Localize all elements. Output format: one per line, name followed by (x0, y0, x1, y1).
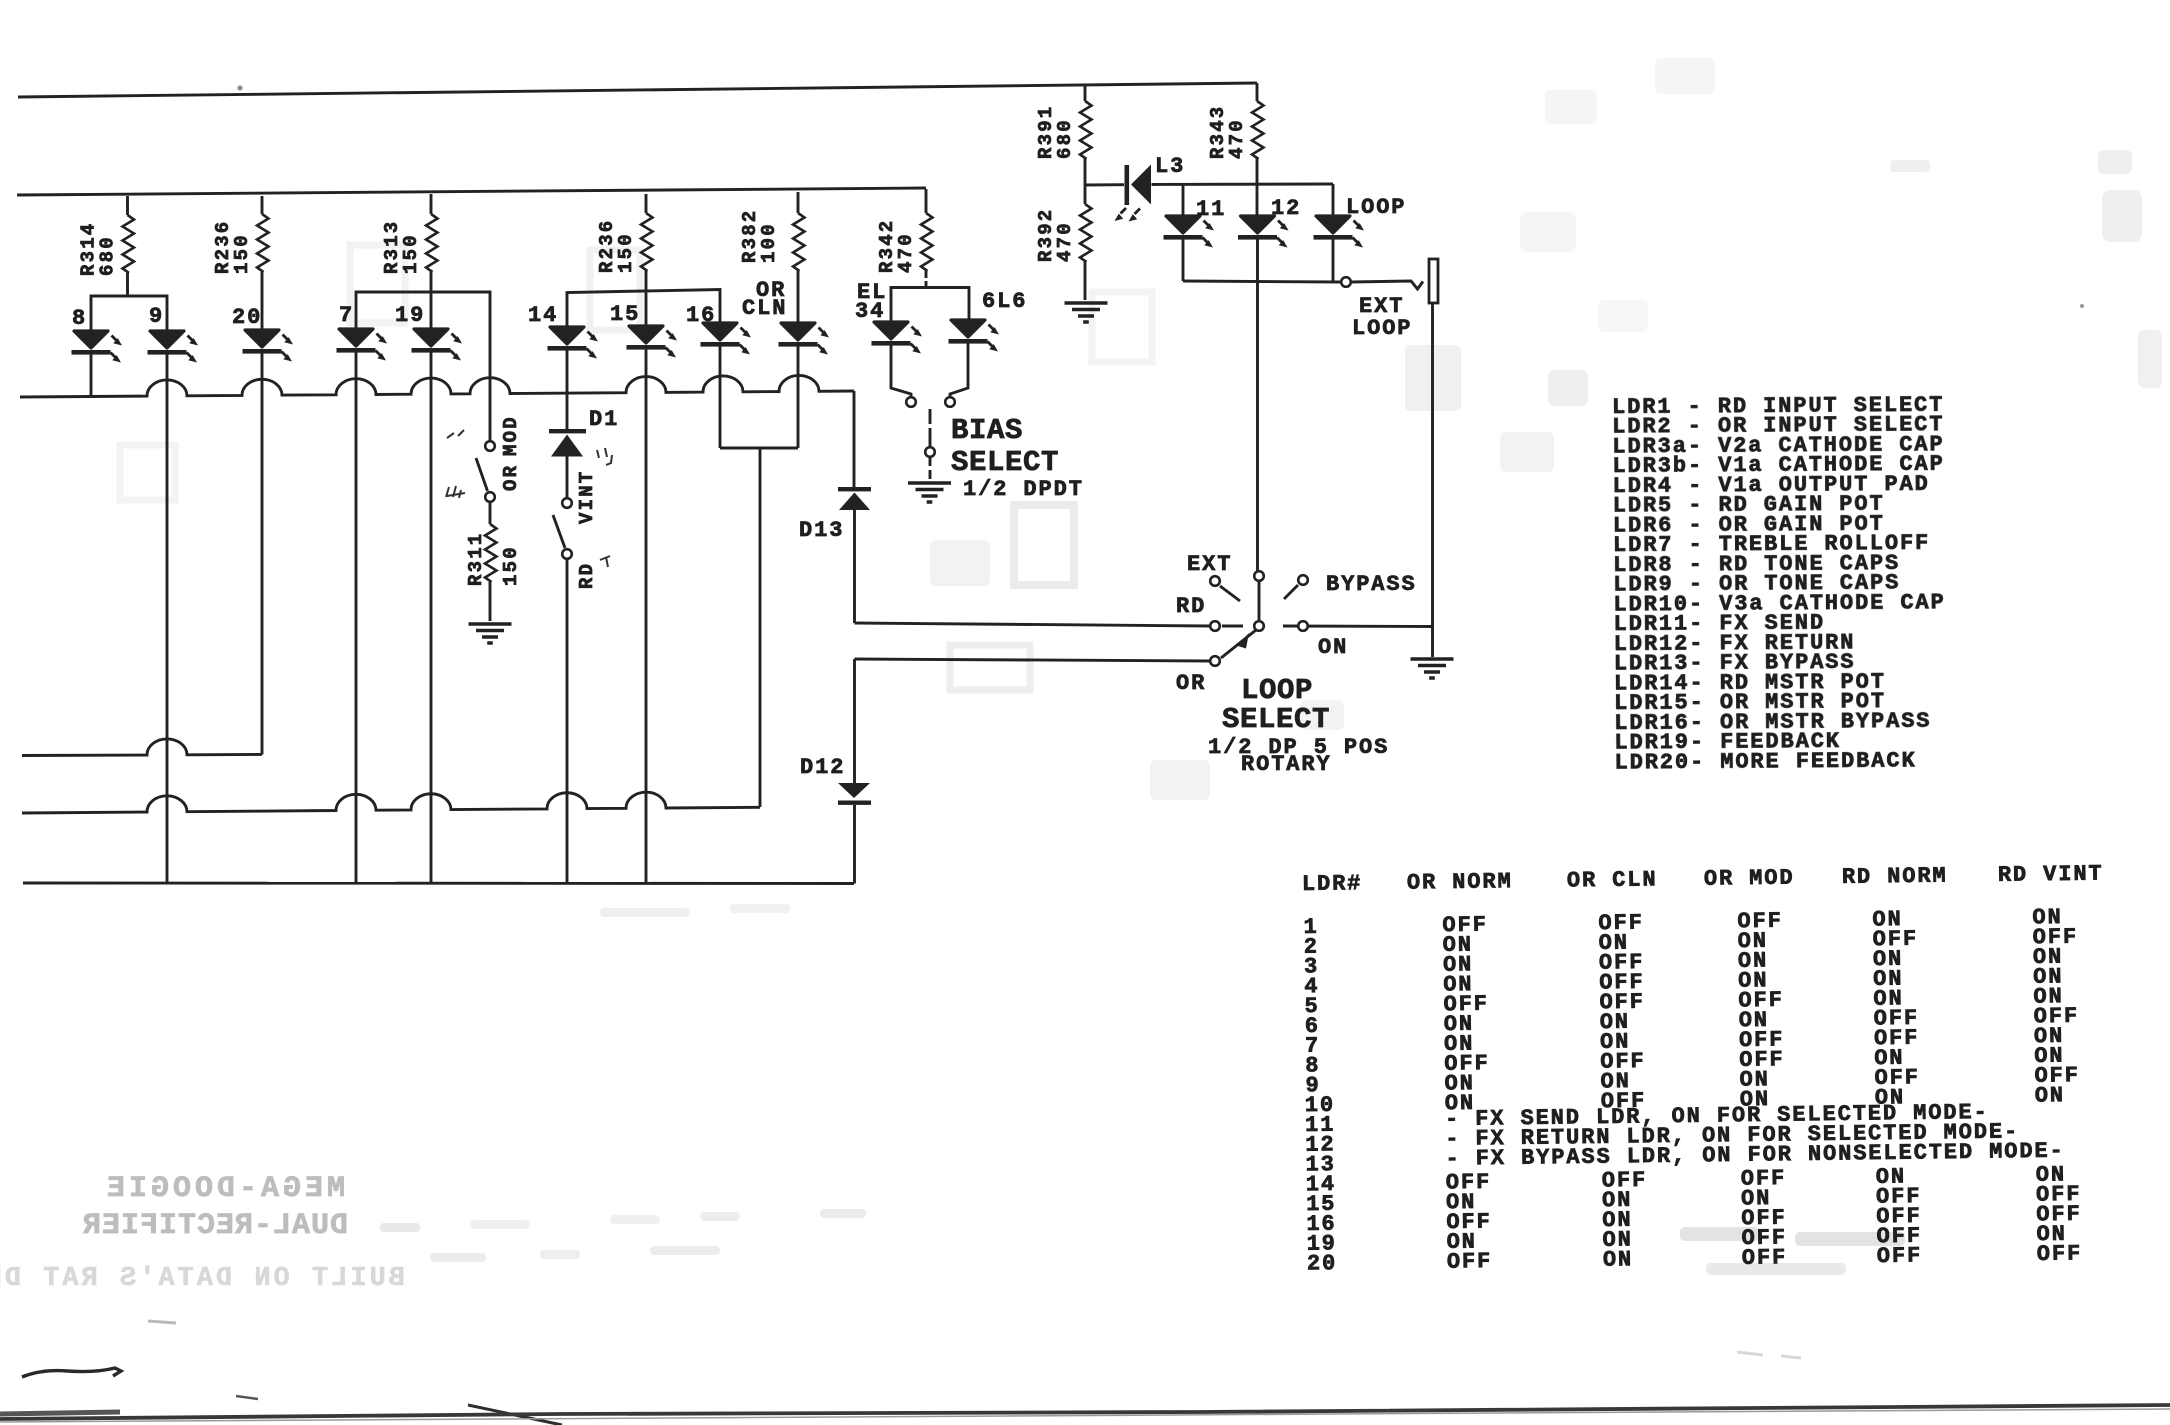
svg-text:ON: ON (1318, 635, 1348, 660)
resistor R314 (126, 196, 129, 296)
switch BIAS SELECT contacts (906, 397, 916, 407)
LED LOOP (1332, 184, 1335, 215)
switch LOOP SELECT rotary (1254, 571, 1264, 581)
LED OR CLN (779, 323, 830, 355)
svg-text:ROTARY: ROTARY (1241, 752, 1332, 777)
wire bracket LED14/15/16 (567, 290, 720, 327)
wire L3 bus (to LEDs 11,12,LOOP) (1085, 184, 1333, 185)
diode D12 (853, 659, 856, 783)
resistor R343 (1256, 83, 1259, 215)
ground (below R392) (1065, 303, 1108, 322)
svg-text:CLN: CLN (742, 296, 787, 321)
diode D13 (853, 391, 856, 487)
svg-text:12: 12 (1271, 196, 1301, 221)
wire bus2 (second horizontal bus) (17, 188, 926, 195)
svg-text:20: 20 (1307, 1251, 1338, 1276)
svg-text:34: 34 (855, 299, 885, 324)
svg-text:LOOP: LOOP (1346, 195, 1406, 220)
svg-text:R311: R311 (465, 532, 487, 586)
svg-text:OR: OR (500, 464, 522, 491)
diode D1 (549, 429, 586, 433)
wire D12 to OR contact (855, 659, 1211, 661)
resistor R342 (925, 189, 928, 288)
svg-text:SELECT: SELECT (951, 446, 1059, 479)
svg-text:VINT: VINT (576, 470, 598, 524)
svg-text:LDR20- MORE FEEDBACK: LDR20- MORE FEEDBACK (1614, 748, 1916, 775)
svg-text:6L6: 6L6 (982, 289, 1027, 314)
svg-text:20: 20 (232, 305, 262, 330)
svg-text:9: 9 (149, 304, 164, 329)
label R314 680 (78, 222, 119, 276)
LED 15 (627, 326, 678, 358)
wire from 16/CLN bracket to left edge (22, 792, 760, 813)
svg-text:DUAL-RECTIFIER: DUAL-RECTIFIER (82, 1209, 348, 1243)
jack EXT LOOP (1429, 259, 1438, 303)
label R382 100 (739, 209, 780, 263)
resistor R382 (797, 192, 800, 322)
LED L3 (1125, 165, 1130, 205)
pen mark near MOD switch (447, 430, 464, 438)
LED 11 (1182, 185, 1185, 215)
svg-text:BIAS: BIAS (951, 414, 1023, 447)
label R313 150 (381, 220, 422, 274)
svg-text:150: 150 (400, 233, 422, 274)
switch RD VINT (562, 498, 572, 508)
svg-text:D13: D13 (799, 518, 844, 543)
svg-text:150: 150 (231, 233, 253, 274)
svg-text:150: 150 (615, 232, 637, 273)
svg-text:L3: L3 (1155, 154, 1185, 179)
svg-text:OFF: OFF (1742, 1245, 1788, 1271)
wire bracket LED16/CLN bottom (720, 448, 798, 807)
pen stroke crossing bottom edge (468, 1405, 562, 1425)
svg-text:D12: D12 (800, 755, 845, 780)
svg-text:SELECT: SELECT (1222, 703, 1330, 736)
pen scribble bottom left (22, 1368, 121, 1377)
LED 6L6 (949, 320, 1000, 352)
svg-text:OR: OR (1176, 671, 1206, 696)
wire bracket LED7/LED19 (356, 292, 490, 441)
resistor R311 (489, 502, 492, 621)
resistor R236 (second) (645, 194, 648, 291)
svg-text:MEGA-DOOGIE: MEGA-DOOGIE (103, 1172, 345, 1206)
scan bottom edge (0, 1405, 2170, 1419)
label R311 150 (465, 532, 522, 586)
svg-text:470: 470 (895, 232, 917, 273)
svg-text:EXT: EXT (1187, 552, 1232, 577)
svg-text:OR CLN: OR CLN (1567, 867, 1658, 893)
wire bracket EL34/6L6 (891, 288, 969, 322)
LED 20 (243, 330, 294, 362)
wire bracket LED8/LED9 (91, 296, 167, 330)
svg-text:OFF: OFF (2037, 1241, 2083, 1267)
svg-text:470: 470 (1226, 118, 1248, 159)
svg-text:RD: RD (576, 562, 598, 589)
label R236 150 (first) (212, 220, 253, 274)
LED 9 (148, 331, 199, 363)
label R392 470 (1035, 208, 1076, 262)
svg-text:LOOP: LOOP (1352, 316, 1412, 341)
svg-text:OFF: OFF (1877, 1243, 1923, 1269)
ground (BIAS SELECT) (908, 483, 951, 502)
resistor R236 (first) (261, 196, 264, 329)
svg-text:OFF: OFF (1447, 1249, 1493, 1275)
svg-text:1/2 DPDT: 1/2 DPDT (963, 477, 1084, 502)
svg-text:19: 19 (395, 303, 425, 328)
LED 12 (1238, 216, 1289, 248)
svg-text:16: 16 (686, 303, 716, 328)
wire hump bus (cathode bus with crossover humps) (20, 375, 854, 397)
svg-text:680: 680 (1054, 118, 1076, 159)
LED 7 (337, 329, 388, 361)
svg-text:RD NORM: RD NORM (1842, 864, 1948, 890)
LED 14 (548, 327, 599, 359)
svg-text:100: 100 (758, 222, 780, 263)
resistor R313 (430, 194, 433, 292)
LED 19 (412, 329, 463, 361)
LED 8 (72, 331, 123, 363)
svg-text:BYPASS: BYPASS (1326, 572, 1417, 597)
ground (below R311) (469, 624, 512, 643)
svg-text:D1: D1 (589, 407, 619, 432)
svg-text:RD VINT: RD VINT (1998, 861, 2104, 887)
label R342 470 (876, 219, 917, 273)
faint dash left-bottom (148, 1321, 176, 1323)
svg-text:ON: ON (2035, 1083, 2066, 1108)
svg-text:14: 14 (528, 303, 558, 328)
resistor R391 (1084, 85, 1087, 185)
wire from LDR20 to left edge (22, 739, 262, 756)
wire bus1 (top horizontal bus) (18, 83, 1257, 97)
svg-text:680: 680 (97, 235, 119, 276)
wire bottom bus (23, 882, 854, 885)
svg-text:OR MOD: OR MOD (1704, 866, 1795, 892)
svg-text:15: 15 (610, 302, 640, 327)
svg-text:BUILT ON DATA'S RAT DNA: BUILT ON DATA'S RAT DNA (0, 1264, 405, 1294)
svg-text:ON: ON (1603, 1247, 1634, 1272)
svg-text:11: 11 (1196, 197, 1226, 222)
wire ON contact to ground line (1283, 625, 1432, 628)
LED 16 (701, 323, 752, 355)
svg-text:OR NORM: OR NORM (1407, 869, 1513, 895)
svg-text:LDR#: LDR# (1302, 871, 1363, 897)
switch MOD/OR (mode select) (485, 441, 495, 451)
label R236 150 (second) (596, 219, 637, 273)
label R343 470 (1207, 105, 1248, 159)
pen mark near RD VINT switch (597, 448, 612, 465)
svg-text:150: 150 (500, 545, 522, 586)
svg-text:8: 8 (72, 306, 87, 331)
svg-text:470: 470 (1054, 221, 1076, 262)
label R391 680 (1035, 105, 1076, 159)
svg-text:7: 7 (339, 303, 354, 328)
wire D13 to RD contact (855, 623, 1211, 626)
resistor R392 (1084, 185, 1087, 300)
LED EL34 (872, 322, 923, 354)
ground (EXT LOOP return) (1411, 659, 1454, 678)
svg-text:RD: RD (1176, 594, 1206, 619)
svg-text:MOD: MOD (500, 415, 522, 456)
wire FX LED cathodes to EXT LOOP jack (1183, 281, 1341, 282)
